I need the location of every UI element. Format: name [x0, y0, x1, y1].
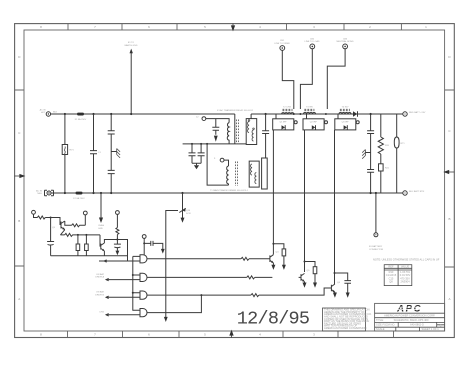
BD1 pin circle: [294, 121, 297, 124]
svg-text:NEUTRAL BOND: NEUTRAL BOND: [336, 40, 353, 43]
right center arrow: [444, 170, 454, 173]
gate U1B: [133, 273, 147, 281]
junction dots bias line: [77, 234, 79, 236]
polarized cap C21: [114, 240, 121, 251]
earth ground triangle: [194, 165, 199, 169]
battery sense drop wire: [375, 193, 377, 233]
svg-text:T1 MAIN TRANSFORMER 400-4023-1: T1 MAIN TRANSFORMER 400-4023-1: [210, 189, 249, 192]
junction dot bus U1B: [132, 274, 134, 276]
svg-text:SCALE: SCALE: [376, 327, 385, 331]
terminal J2-2 circle: [310, 44, 315, 49]
junction dots neutral bus: [64, 192, 66, 194]
TOPTERM: [125, 38, 354, 114]
svg-text:NEU: NEU: [37, 193, 42, 195]
gate U1A: [133, 255, 147, 263]
top zone ticks: [68, 24, 401, 30]
svg-text:SHEET 1 OF 1: SHEET 1 OF 1: [422, 327, 440, 331]
junction dot sense: [375, 192, 377, 194]
transformer T1 primary winding: [227, 123, 229, 144]
svg-text:T2 CHG: T2 CHG: [283, 107, 291, 109]
transistor Q3: [329, 284, 335, 292]
driver drop Q1 wire: [272, 130, 274, 255]
svg-text:F2 8A 250V: F2 8A 250V: [73, 197, 85, 200]
gate wire end arrow: [164, 317, 168, 322]
MOV RV1 branch wire: [64, 114, 66, 193]
neutral stub arrow: [99, 218, 103, 224]
svg-text:CONNECTOR: CONNECTOR: [369, 249, 383, 251]
capacitor C9 branch: [212, 119, 219, 135]
svg-text:K1 AC TRANSFER RELAY 400-4012: K1 AC TRANSFER RELAY 400-4012: [217, 109, 254, 112]
node T4 terminal: [202, 117, 206, 121]
title block frame: [375, 303, 445, 331]
driver drop Q3 wire: [334, 130, 336, 284]
bridge box BD3: [335, 119, 356, 130]
ACIN: [36, 109, 402, 230]
title block row lines: [375, 313, 445, 327]
wire terminal1 to coil area: [282, 50, 294, 109]
transistor Q6: [101, 243, 105, 251]
svg-text:EARTH GND: EARTH GND: [125, 44, 138, 47]
battery sense terminal: [374, 233, 378, 237]
T1 secondary box: [246, 119, 257, 145]
Q2 bias ground wire: [314, 274, 316, 284]
junction dot control: [50, 217, 52, 219]
AC hot bus wire: [51, 113, 235, 115]
inductor L2 winding: [304, 113, 316, 115]
inner border frame: [24, 30, 445, 331]
fuse F1: [77, 113, 84, 116]
svg-text:A: A: [18, 297, 20, 301]
U1C output wire: [147, 294, 201, 296]
fuse F2: [76, 192, 83, 195]
top center arrow: [231, 24, 234, 31]
number row dividers: [398, 322, 444, 327]
resistor R28: [85, 235, 87, 244]
Q10 ground arrow: [181, 218, 185, 223]
capacitor C1 plates: [90, 151, 97, 154]
svg-text:NOTE: UNLESS OTHERWISE STATED: NOTE: UNLESS OTHERWISE STATED ALL CAPS I…: [373, 258, 440, 262]
revision table frame: [384, 265, 412, 286]
svg-text:AC IN: AC IN: [36, 190, 42, 193]
T2 core dashes: [236, 162, 238, 187]
bleeder resistor R20 branch: [380, 114, 382, 193]
Q2 collector wire: [304, 282, 306, 283]
outer border frame: [15, 24, 455, 338]
inductor L2 core dashes: [304, 109, 314, 110]
BD2 diode: [312, 125, 316, 129]
terminal T7: [84, 215, 86, 225]
BD3 pin circle: [356, 121, 359, 124]
svg-text:SCR: SCR: [186, 213, 191, 215]
svg-text:E1 TO: E1 TO: [128, 42, 135, 44]
control rail wire: [51, 255, 128, 257]
U1A input stub arrow: [104, 260, 107, 262]
svg-text:TITLE:: TITLE:: [376, 318, 384, 322]
svg-text:12/8/95: 12/8/95: [237, 309, 309, 330]
svg-text:ON BAT: ON BAT: [96, 273, 105, 276]
capacitor C2 plates: [108, 131, 115, 134]
junction dot bus left: [265, 113, 267, 115]
T1 secondary pins: [248, 120, 250, 122]
svg-text:DRIVE B: DRIVE B: [95, 294, 104, 296]
sensor box R21: [379, 164, 384, 171]
svg-text:A: A: [448, 297, 450, 301]
Q1 bias resistor: [282, 249, 286, 256]
transistor Q5: [61, 221, 65, 230]
scale row dividers: [396, 327, 420, 331]
junction dot cap tee: [143, 242, 145, 244]
Q5 emitter line: [60, 230, 100, 237]
TITLEBLK: [237, 258, 445, 331]
BD3 diode: [344, 125, 348, 129]
capacitor C2 branch wire: [110, 114, 112, 193]
notes text: [324, 308, 372, 330]
XFMR: [183, 109, 268, 192]
BD1 diode: [282, 125, 286, 129]
chassis ground symbol right: [362, 150, 365, 159]
wire terminal3 to coil area: [327, 49, 345, 109]
svg-text:B: B: [448, 217, 450, 221]
U1C lower input wire: [106, 296, 139, 298]
resistor R29 vertical: [116, 214, 119, 239]
inductor L1 winding: [282, 113, 294, 114]
hot bus drop to primary return: [234, 114, 236, 144]
T2 shield box: [262, 158, 268, 189]
bottom zone ticks: [68, 331, 394, 338]
chassis stub wire: [365, 152, 370, 154]
svg-text:BLK BATT RTN: BLK BATT RTN: [409, 190, 425, 193]
transistor Q5 base wire: [51, 218, 61, 225]
svg-text:Q1 IRF: Q1 IRF: [279, 122, 287, 124]
earth ground riser arrow: [130, 49, 133, 54]
svg-text:640-0862-D: 640-0862-D: [410, 323, 424, 327]
T2 primary return wire: [207, 144, 228, 185]
right zone ticks: [445, 90, 455, 267]
BD2 pin circle: [325, 121, 328, 124]
earth ground riser wire: [130, 52, 132, 114]
U1D output wire: [147, 295, 201, 313]
transistor Q6 base wire: [99, 235, 102, 246]
U1D input stub arrow: [106, 314, 109, 316]
CONTROL: [32, 192, 191, 322]
transistor Q2: [299, 273, 305, 281]
U1A output wire: [147, 257, 268, 260]
svg-text:REF: REF: [388, 265, 394, 269]
inductor L3 winding: [339, 113, 351, 115]
svg-text:B1 BATTERY: B1 BATTERY: [369, 245, 383, 248]
svg-text:Q2 IRF: Q2 IRF: [310, 122, 318, 124]
svg-text:RED BATT +24V: RED BATT +24V: [409, 111, 426, 114]
junction dot Q3 loop: [334, 272, 336, 274]
svg-text:AC IN: AC IN: [40, 109, 46, 112]
mosfet drop junction: [181, 192, 183, 194]
gate input bus: [132, 256, 134, 310]
Q1 collector wire: [272, 254, 274, 265]
gate U1C: [133, 291, 147, 299]
svg-text:LINE TO XFMR: LINE TO XFMR: [274, 43, 290, 45]
resistor R27: [77, 235, 79, 244]
junction dot T8 branch: [116, 239, 118, 241]
T1 secondary winding marks: [248, 122, 254, 142]
junction dot Q2 loop: [304, 261, 306, 263]
left center arrow: [15, 174, 25, 177]
svg-text:T3 INV: T3 INV: [306, 107, 313, 109]
gate U1D: [133, 309, 147, 317]
snubber cap CA branch: [189, 144, 196, 163]
terminal drop wire: [143, 238, 145, 254]
svg-text:VALUE: VALUE: [401, 265, 410, 269]
coupling cap C22: [144, 241, 163, 250]
secondary to hot bus wire: [250, 114, 252, 119]
svg-text:Q3 IRF: Q3 IRF: [342, 122, 350, 124]
wire terminal to T2 primary: [224, 160, 229, 166]
box feed stubs: [276, 114, 338, 119]
terminal T6: [32, 210, 36, 214]
svg-text:C: C: [440, 324, 442, 328]
mosfet Q10 drop wire: [182, 193, 184, 208]
transformer T2 primary winding: [227, 166, 229, 185]
Q3 bias ground arrow: [346, 293, 350, 298]
chassis ground symbol: [117, 149, 120, 158]
svg-text:LINE TO LOAD: LINE TO LOAD: [305, 40, 320, 43]
right zone letters: [448, 55, 451, 301]
MOV RV1 body: [62, 145, 67, 155]
terminal ACIN neutral: [45, 190, 54, 196]
T2 secondary box: [249, 161, 259, 187]
svg-text:ON BAT: ON BAT: [96, 291, 105, 294]
neutral stub down wire: [100, 193, 102, 219]
inductor L1 core dashes: [283, 109, 293, 110]
mosfet Q10: [179, 208, 185, 219]
filter cap C11 branch: [367, 114, 374, 193]
terminal ACIN hot: [46, 112, 50, 116]
node T5 terminal: [220, 158, 224, 162]
wire terminal to primary top: [206, 119, 229, 123]
Q1 bias loop wire: [273, 244, 284, 249]
DRIVERS: [268, 243, 352, 298]
POWROW: [262, 107, 359, 285]
svg-text:GND: GND: [98, 228, 103, 230]
T2 secondary winding marks: [251, 164, 257, 184]
transistor Q1: [268, 255, 274, 263]
U1C input stub arrow: [106, 296, 109, 298]
svg-text:2N3904: 2N3904: [400, 280, 410, 284]
Q1 bias ground wire: [283, 256, 285, 266]
bridge box BD1: [273, 119, 294, 130]
Q3 emitter ground arrow: [333, 293, 337, 298]
junction merge dot: [200, 294, 202, 296]
notes box: [323, 308, 366, 331]
diode D5 on bus: [353, 111, 357, 116]
driver drop Q2 wire: [304, 130, 306, 272]
APC logo stripes: [397, 307, 424, 309]
snubber cap CB branch: [198, 144, 205, 163]
terminal J2-3 circle: [343, 44, 348, 49]
junction dots C11: [370, 113, 372, 115]
merged drive wire: [201, 288, 329, 297]
T1 core dashes: [237, 120, 239, 145]
battery return terminal: [403, 191, 407, 195]
svg-text:AMERICAN POWER CONVERSION C: AMERICAN POWER CONVERSION CORP.: [384, 313, 435, 317]
bottom center arrow: [230, 331, 233, 338]
junction dots hot bus: [64, 113, 66, 115]
bridge box BD2: [303, 119, 324, 130]
svg-text:SCHEMATIC, BACK-UPS 400: SCHEMATIC, BACK-UPS 400: [394, 318, 429, 322]
left zone letters: [18, 55, 21, 301]
primary return wire: [183, 143, 247, 145]
inductor L3 core dashes: [340, 109, 350, 110]
terminal J2-1 circle: [280, 46, 285, 51]
C22 ground arrow: [161, 249, 165, 254]
Q1 emitter ground arrow: [271, 265, 275, 270]
Q3 bias cap: [344, 281, 351, 284]
Q1 bias ground arrow: [282, 265, 286, 270]
svg-text:AMERICAN POWER CONVERSION: AMERICAN POWER CONVERSION: [324, 326, 366, 330]
U1A lower input wire: [99, 260, 139, 262]
thermistor RT1 branch: [396, 114, 398, 193]
revision table column line: [397, 265, 399, 286]
GATES: [95, 235, 329, 317]
Q3 bias ground wire: [347, 283, 349, 293]
Q3 collector wire: [334, 291, 336, 294]
bleeder resistor R20 zigzag: [378, 137, 383, 154]
capacitor C10 branch: [262, 114, 269, 158]
thermistor RT1 body: [394, 137, 399, 148]
Q2 emitter ground arrow: [303, 283, 307, 288]
junction dot Q1 loop: [272, 243, 274, 245]
svg-text:B: B: [18, 219, 20, 223]
svg-text:DRIVE A: DRIVE A: [95, 276, 104, 279]
svg-text:BLK: BLK: [53, 112, 58, 114]
control cap C20 branch: [47, 218, 54, 256]
svg-text:CHAS: CHAS: [98, 224, 105, 227]
Q10 gate wire long: [166, 211, 178, 319]
Q6 collector wire: [104, 240, 127, 262]
wire terminal2 to coil area: [300, 49, 312, 109]
svg-text:F1 8A 250V: F1 8A 250V: [75, 118, 87, 121]
AC neutral bus wire: [51, 192, 402, 194]
U1B lower input wire: [106, 279, 139, 281]
Q5 collector resistor R26: [65, 221, 86, 227]
capacitor C3 plates: [108, 170, 115, 173]
snubber ground join: [192, 163, 201, 165]
U1D lower input wire: [106, 314, 139, 316]
Q2 bias resistor: [313, 267, 317, 274]
svg-text:T4 INV: T4 INV: [342, 107, 349, 109]
capacitor C1 branch wire: [93, 114, 95, 193]
gate ref terminal: [142, 235, 146, 239]
junction dots feeds: [293, 113, 295, 115]
C21 ground arrow: [116, 251, 120, 256]
U1B input stub arrow: [106, 278, 109, 280]
resistor R25: [34, 214, 51, 219]
U1B output wire: [147, 276, 272, 279]
svg-text:HOT: HOT: [41, 112, 46, 114]
terminal T8: [116, 211, 120, 215]
battery positive terminal: [403, 112, 407, 116]
Q3 bias loop wire: [335, 273, 348, 281]
svg-text:Q8: Q8: [389, 280, 393, 284]
chassis ground stub wire: [111, 151, 117, 153]
bottom zone numbers: [40, 333, 315, 337]
left zone ticks: [15, 90, 24, 266]
top zone numbers: [40, 25, 427, 29]
junction dots primary return: [191, 143, 193, 145]
capacitor C9 neg arrow: [214, 136, 218, 142]
junction dot bus U1C: [132, 292, 134, 294]
Q2 bias loop wire: [305, 262, 316, 267]
AC hot bus right section wire: [251, 113, 403, 115]
OUTPUT: [362, 111, 426, 251]
svg-text:SIZE FSCM NO.: SIZE FSCM NO.: [376, 323, 395, 327]
revision table rows text: [386, 270, 411, 284]
svg-text:CHG: CHG: [99, 312, 104, 314]
Q2 bias ground arrow: [313, 283, 317, 288]
revision table header band: [384, 268, 412, 270]
